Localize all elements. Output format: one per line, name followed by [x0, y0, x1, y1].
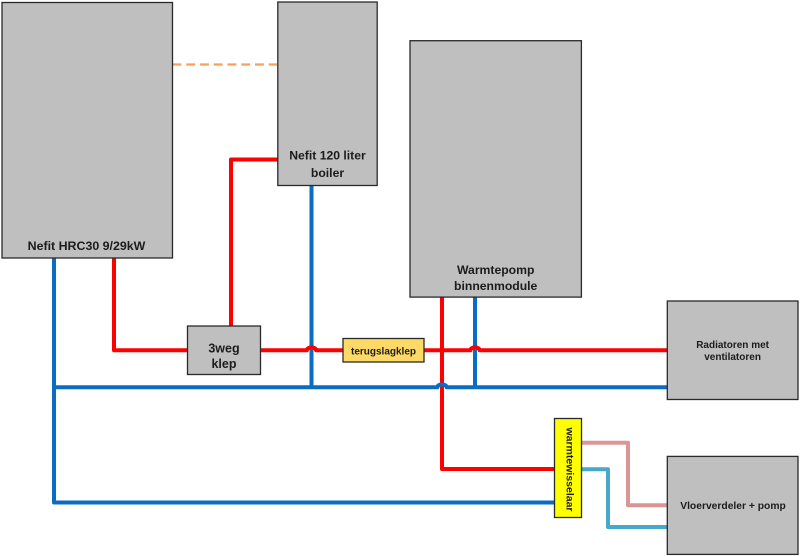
wire red main horizontal with hops over blue at x=311.5 and x=475	[261, 347, 668, 350]
svg-text:ventilatoren: ventilatoren	[704, 352, 761, 363]
svg-text:boiler: boiler	[311, 166, 344, 180]
valve terugslagklep	[343, 339, 424, 363]
heat exchanger warmtewisselaar	[555, 419, 582, 518]
box Nefit 120 liter boiler	[278, 2, 377, 186]
svg-text:Vloerverdeler + pomp: Vloerverdeler + pomp	[680, 501, 786, 512]
cyan floor-heating return wire	[582, 469, 668, 527]
box Nefit HRC30 9/29kW	[2, 3, 173, 259]
box Radiatoren met ventilatoren	[667, 301, 798, 400]
wire blue vertical from boiler	[310, 185, 314, 387]
wire red from HRC30 down to 3weg klep	[114, 257, 188, 350]
svg-text:Nefit HRC30 9/29kW: Nefit HRC30 9/29kW	[28, 239, 146, 253]
svg-text:warmtewisselaar: warmtewisselaar	[564, 426, 576, 511]
wire red vertical+horizontal from warmtepomp to warmtewisselaar	[442, 296, 555, 469]
svg-text:Warmtepomp: Warmtepomp	[457, 263, 534, 277]
dashed control line between HRC30 and boiler	[173, 63, 278, 65]
wire blue main horizontal return with hop over red at x=442	[54, 384, 667, 387]
box 3weg klep	[188, 326, 261, 375]
box Vloerverdeler + pomp	[667, 456, 798, 554]
svg-text:binnenmodule: binnenmodule	[454, 279, 537, 293]
svg-text:klep: klep	[211, 357, 236, 371]
svg-text:3weg: 3weg	[208, 342, 239, 356]
wire red from boiler to 3weg klep top	[231, 160, 278, 327]
svg-text:terugslagklep: terugslagklep	[351, 347, 416, 358]
wire blue vertical from warmtepomp	[473, 296, 477, 387]
pink floor-heating supply wire	[582, 443, 668, 505]
box Warmtepomp binnenmodule	[410, 41, 581, 297]
svg-text:Nefit 120 liter: Nefit 120 liter	[289, 149, 366, 163]
wire blue supply from HRC30 down and bottom run to warmtewisselaar	[54, 257, 555, 503]
svg-text:Radiatoren met: Radiatoren met	[696, 340, 769, 351]
